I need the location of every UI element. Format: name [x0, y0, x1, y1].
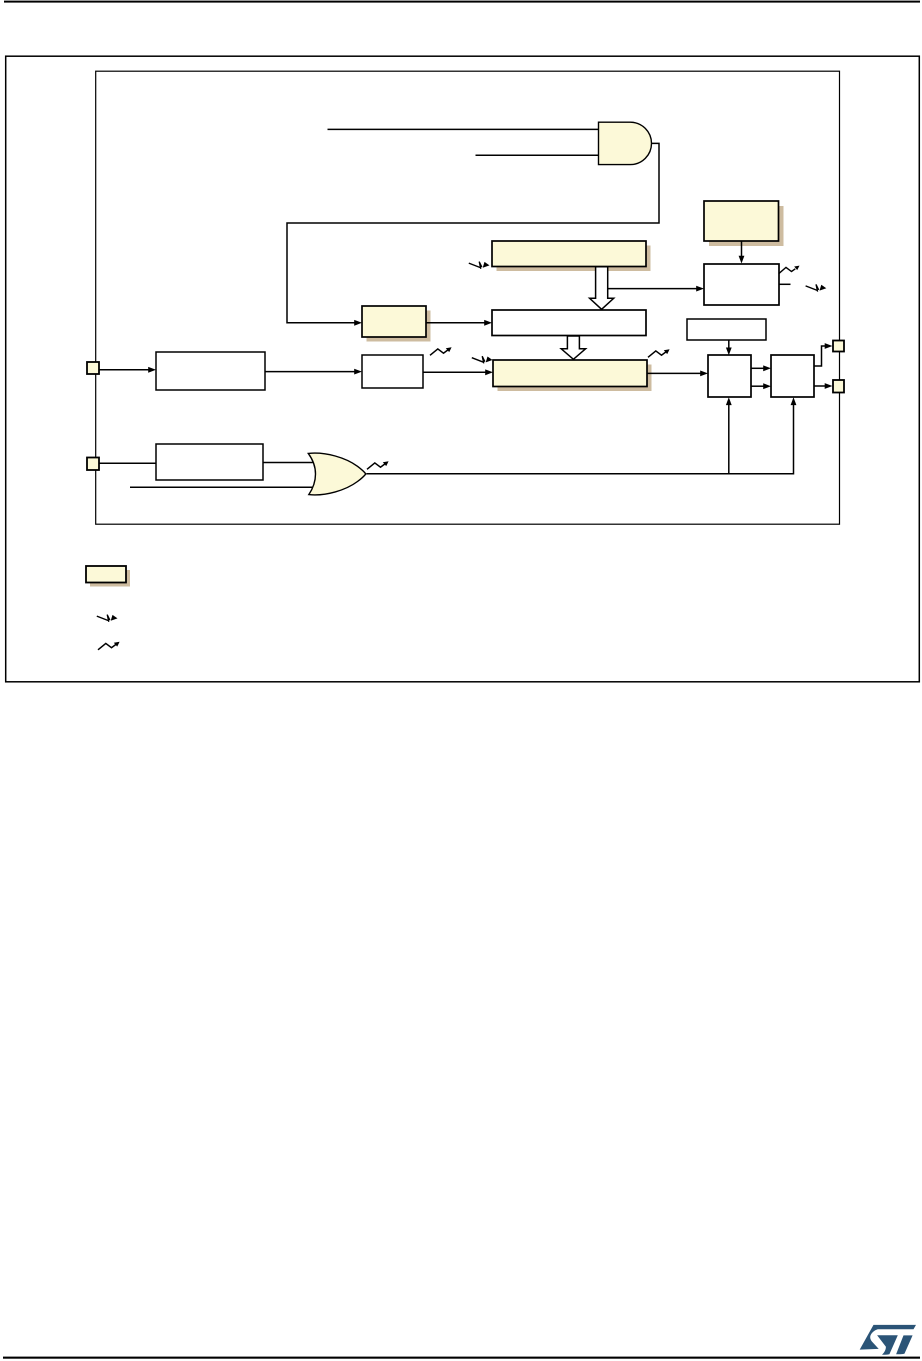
- prescaler block (row1 left white): [156, 352, 265, 390]
- wire B1 to B2 upper: [751, 367, 764, 369]
- divider box (row1 small white): [362, 355, 423, 388]
- wire to wide white box: [426, 322, 485, 324]
- wire AND input 1: [328, 128, 599, 130]
- stub line: [779, 283, 791, 285]
- AND gate U1: [599, 122, 652, 164]
- event squiggle above row 1: [430, 347, 452, 355]
- OR gate U2: [308, 453, 366, 495]
- wire pad L2 to ICAP block: [99, 462, 156, 464]
- diagram inner frame: [96, 71, 840, 524]
- wire counter register to B1: [647, 372, 701, 374]
- block B2: [771, 355, 814, 397]
- interrupt flash right of status: [806, 284, 827, 291]
- header rule: [4, 1, 920, 3]
- wire AND output feedback: [287, 143, 659, 322]
- legend event squiggle: [98, 642, 120, 650]
- footer rule: [3, 1357, 920, 1359]
- legend interrupt flash: [97, 615, 118, 622]
- wire divider to counter register: [423, 371, 486, 373]
- wire ICAP to OR gate: [263, 462, 318, 464]
- wire pad L1 to counter block: [99, 369, 149, 371]
- register box (small yellow): [362, 306, 431, 342]
- wire AND input 2: [476, 154, 599, 156]
- hollow transfer arrow 1: [590, 267, 614, 310]
- pad B: [833, 380, 844, 393]
- wire prescaler to small white box: [265, 371, 355, 373]
- pad L1: [87, 362, 99, 374]
- wire branch to right compare block: [608, 288, 697, 290]
- wire B1 to B2 lower: [751, 385, 764, 387]
- pad L2: [87, 458, 99, 471]
- wire OR output long run: [367, 404, 794, 474]
- ICAP block (row2 white box): [156, 444, 263, 480]
- compare latch (wide white box): [492, 310, 646, 336]
- status block (right white box): [704, 264, 779, 305]
- ST logo: [860, 1325, 916, 1355]
- legend register box: [86, 566, 130, 587]
- wire riser to B1: [728, 404, 730, 474]
- wire control to status: [741, 241, 743, 257]
- wire OR input 2: [130, 486, 322, 488]
- pad A: [833, 341, 844, 352]
- wire B2 to pad B: [814, 385, 826, 387]
- output compare register (long yellow 1): [492, 241, 651, 271]
- control register (top right yellow): [704, 201, 784, 246]
- counter register (long yellow 2): [493, 360, 652, 391]
- wire B2 to pad A: [814, 346, 826, 366]
- block B1: [708, 355, 751, 397]
- event squiggle at OR output: [367, 461, 389, 469]
- event squiggle right of counter register: [648, 349, 670, 357]
- event squiggle at status box corner: [779, 267, 796, 273]
- interrupt flash at long yellow 1: [469, 262, 490, 269]
- interrupt flash at long yellow 2: [472, 356, 493, 363]
- figure outer frame: [6, 56, 920, 682]
- wire edge detect to block B1: [728, 340, 730, 349]
- edge detect block (wide white): [687, 319, 766, 340]
- hollow transfer arrow 2: [561, 336, 585, 359]
